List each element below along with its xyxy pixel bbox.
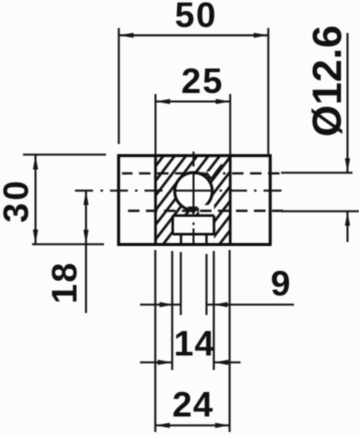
arrow blob on slot centre [188,207,199,216]
dimension 9: left dimension line [140,304,181,306]
dimension 50: right arrowhead [254,33,269,38]
dimension 25: left arrowhead [156,99,171,104]
dimension 30: top extension line [23,154,106,156]
dimension 50: dimension line [119,34,268,36]
dimension 25: right extension line [229,94,231,156]
dimension 24: right arrowhead [215,423,230,428]
dimension 9: left arrowhead [160,302,174,307]
dimension 18: top arrowhead [83,191,88,205]
dimension 25: dimension line [156,100,231,102]
dimension 14: right dimension line [214,361,241,363]
svg-text:24: 24 [172,385,214,425]
extension line below block, left of 9 [180,252,182,315]
T-slot cavity outline [173,216,214,235]
dimension dia12.6: upper leader line [346,33,348,173]
extension line below block, left of 14 [171,251,173,370]
dimension dia12.6: upper extension line [281,172,353,174]
dimension 25: left extension line [155,94,157,156]
dimension 24: left arrowhead [155,423,170,428]
dimension 25: right arrowhead [216,99,231,104]
dimension dia12.6: lower arrowhead [345,211,350,226]
svg-text:9: 9 [271,264,291,304]
horizontal centre line of hole [75,190,282,192]
hidden line, hole top tangent (right part) [223,172,283,174]
dimension 30: dimension line [34,155,36,244]
dimension 50: left arrowhead [119,33,134,38]
dimension 30: bottom extension line [32,243,104,245]
extension line below block, right of 14 [213,251,215,370]
svg-text:18: 18 [45,261,85,304]
clear area under hole right side [199,205,214,215]
vertical centre line of slot [193,152,195,244]
notch wedge at top right of hole [205,165,222,180]
svg-text:25: 25 [181,61,224,101]
dimension 18: value label (rotated) [45,261,85,304]
svg-text:50: 50 [175,0,218,35]
extension line below block, right of 9 [205,254,207,315]
dimension 50: right extension line [267,28,269,154]
section band edge lines [156,156,231,245]
slot neck edges (9 mm wide) [181,234,207,244]
dimension dia12.6: lower leader line [346,211,348,242]
hidden line, hole top tangent (left part) [122,172,207,174]
dimension dia12.6: value label (rotated) [304,25,350,137]
svg-text:30: 30 [0,178,36,223]
extension line below block, right of 24 [229,250,231,432]
extension line below block, left of 24 [154,250,156,432]
dimension 30: value label (rotated) [0,178,36,223]
dimension 14: left dimension line [140,361,172,363]
dimension 24: dimension line [155,424,229,426]
dimension 9: right arrowhead [214,302,228,307]
dimension 30: top arrowhead [33,155,38,170]
dimension 14: right arrowhead [214,360,229,365]
dimension 18: dimension line [85,191,87,313]
dimension 30: bottom arrowhead [33,230,38,245]
T-slot cavity (14 mm wide) white fill [173,215,214,245]
dimension 50: left extension line [118,28,120,144]
section hatching of 25 mm wide cut band [156,156,231,245]
svg-text:14: 14 [174,324,216,364]
dimension dia12.6: lower extension line [281,210,359,212]
dimension 14: left arrowhead [158,360,173,365]
hidden line, hole bottom tangent [122,210,283,212]
hole circle (dia 12.6) [175,173,213,211]
dimension 9: right dimension line [207,304,295,306]
dimension dia12.6: upper arrowhead [345,158,350,173]
block outline 50 x 30 [119,156,271,245]
dimension 18: bottom arrowhead [83,230,88,245]
svg-text:Ø12.6: Ø12.6 [304,25,350,137]
